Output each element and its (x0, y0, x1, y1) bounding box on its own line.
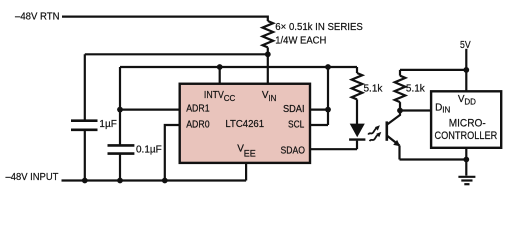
svg-text:IN: IN (268, 94, 276, 103)
op-amp U1 LTC4261 hot swap controller body (180, 84, 310, 163)
svg-text:–48V RTN: –48V RTN (15, 11, 60, 22)
pin label INTVCC (204, 90, 236, 103)
wire LED cathode to SDAO (356, 141, 358, 150)
resistor 6x0.51k series chain (262, 21, 273, 54)
wire SDAO pin (310, 148, 357, 150)
svg-text:5.1k: 5.1k (406, 84, 426, 95)
svg-text:CC: CC (224, 94, 236, 103)
wire 1uF branch lower (84, 130, 86, 181)
svg-text:DD: DD (464, 97, 476, 106)
node junction resistor-bottom / VIN (265, 51, 271, 57)
node junction phototransistor collector / DIN (397, 108, 403, 114)
wire INTVCC net horizontal (y=67) (120, 66, 357, 68)
wire 5V supply vertical (465, 49, 467, 92)
wire 0.1uF branch lower (119, 154, 121, 181)
wire ADR1 pin (120, 108, 180, 110)
svg-text:5.1k: 5.1k (364, 84, 384, 95)
pin label ADR0 (186, 119, 210, 130)
svg-text:SDAI: SDAI (283, 104, 305, 115)
wire DIN pin (400, 109, 431, 111)
wire SDAI/SCL vertical to INTVCC net (327, 67, 329, 125)
resistor 5.1k right value label (406, 84, 426, 95)
svg-text:1µF: 1µF (99, 119, 116, 130)
node junction INTVCC (217, 64, 223, 70)
pin label SDAI (283, 104, 305, 115)
microcontroller name (435, 118, 498, 142)
optocoupler light arrow lower (370, 132, 382, 141)
pin label ADR1 (186, 104, 210, 115)
node junction 0.1uF on rail (117, 178, 123, 184)
svg-text:IN: IN (442, 106, 450, 115)
node junction 1uF on rail (82, 178, 88, 184)
IC name LTC4261 (225, 119, 264, 130)
svg-text:0.1µF: 0.1µF (136, 145, 162, 156)
wire microcontroller ground vertical (465, 148, 467, 176)
node 5V label (460, 40, 471, 51)
capacitor 1uF (71, 121, 98, 130)
node junction ADR0 on rail (162, 178, 168, 184)
wire SDAI pin (310, 108, 328, 110)
wire -48V INPUT bottom rail (62, 179, 247, 181)
resistor 5.1k left pull-up (352, 67, 363, 124)
capacitor 0.1uF value label (136, 145, 162, 156)
capacitor 0.1uF (108, 145, 135, 153)
node junction INTVCC net at x=328 (325, 64, 331, 70)
wire VIN vertical into pin (267, 54, 269, 83)
LED optocoupler emitter diode (350, 124, 365, 138)
wire VEE pin to rail (245, 163, 247, 181)
wire 0.1uF / ADR1 vertical (119, 67, 121, 145)
pin label SDAO (281, 145, 306, 156)
svg-text:LTC4261: LTC4261 (225, 119, 264, 130)
pin label VEE (237, 144, 256, 159)
svg-text:EE: EE (244, 149, 256, 159)
svg-text:MICRO-: MICRO- (449, 118, 486, 130)
LED cathode bar (349, 138, 365, 140)
pin label VIN (262, 90, 277, 103)
svg-text:ADR1: ADR1 (186, 104, 210, 115)
svg-text:SDAO: SDAO (281, 145, 306, 156)
ground (458, 177, 475, 184)
wire INTVCC pin vertical (219, 67, 221, 84)
capacitor 1uF value label (99, 119, 116, 130)
node junction ADR1 tap (117, 107, 123, 113)
wire SCL pin (310, 124, 328, 126)
svg-text:6× 0.51k IN SERIES: 6× 0.51k IN SERIES (275, 22, 363, 33)
svg-text:D: D (435, 102, 442, 113)
svg-text:–48V INPUT: –48V INPUT (6, 172, 59, 183)
node -48V RTN label (15, 11, 60, 22)
resistor 5.1k right pull-up (395, 70, 406, 111)
svg-text:SCL: SCL (288, 120, 305, 131)
microcontroller box (431, 91, 501, 148)
wire VIN net horizontal (y=54.3) (85, 53, 268, 55)
resistor 6x0.51k value label (275, 22, 363, 47)
transistor Q1 optocoupler phototransistor (387, 111, 400, 160)
node junction 5V (463, 67, 469, 73)
pin label SCL (288, 120, 305, 131)
pin label VDD (458, 94, 476, 106)
node junction emitter / ground (463, 157, 469, 163)
svg-text:ADR0: ADR0 (186, 119, 210, 130)
svg-text:1/4W EACH: 1/4W EACH (275, 36, 326, 47)
wire 5V net horizontal (400, 69, 466, 71)
wire emitter to ground net (400, 158, 467, 160)
svg-text:INTV: INTV (204, 90, 224, 101)
wire ADR0 pin to bottom rail (165, 125, 180, 181)
wire 1uF branch upper (84, 54, 86, 120)
wire -48V RTN top rail (62, 17, 268, 21)
node -48V INPUT label (6, 172, 59, 183)
optocoupler light arrow upper (368, 125, 380, 134)
resistor 5.1k left value label (364, 84, 384, 95)
svg-text:CONTROLLER: CONTROLLER (435, 130, 498, 142)
node junction SDAI/SCL (325, 107, 331, 113)
pin label DIN (435, 102, 450, 114)
